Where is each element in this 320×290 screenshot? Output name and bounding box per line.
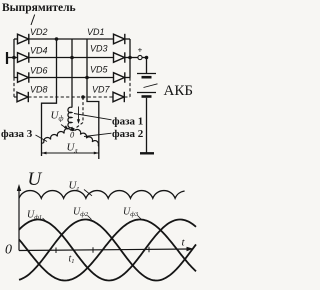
svg-text:Uф3: Uф3 bbox=[123, 207, 139, 219]
minus terminal wire bbox=[7, 57, 14, 59]
coil phase2 vertical bbox=[68, 107, 73, 129]
arrow into node0 bbox=[61, 125, 69, 130]
minus terminal bar bbox=[6, 52, 8, 64]
wire row1 middle bbox=[29, 38, 114, 40]
wire row1 right bbox=[125, 38, 130, 40]
sinusoid Uф3 bbox=[19, 220, 196, 281]
leader from title to rectifier bbox=[31, 15, 35, 26]
dashed neutral wire bbox=[75, 97, 84, 129]
battery cell1 short plate bbox=[142, 76, 152, 79]
svg-text:фаза 3: фаза 3 bbox=[1, 128, 33, 140]
node right bus bbox=[128, 56, 132, 60]
battery break mark bbox=[144, 84, 158, 88]
phase line 3 bbox=[87, 39, 99, 159]
node battery junction bbox=[145, 56, 149, 60]
left bus wire bbox=[13, 39, 15, 78]
node row4-neutral bbox=[81, 95, 85, 99]
svg-text:Uф: Uф bbox=[51, 110, 64, 123]
diode VD8 bbox=[17, 92, 28, 102]
svg-text:U: U bbox=[28, 169, 43, 190]
diode VD4 bbox=[18, 52, 29, 62]
node left bus bbox=[12, 56, 16, 60]
battery cell2 long plate bbox=[137, 92, 156, 94]
wire row4 dashed right bbox=[124, 96, 130, 98]
left bus dashed wire bbox=[13, 78, 15, 98]
node row1-phase1 bbox=[55, 37, 59, 41]
node row3-phase3 bbox=[85, 76, 89, 80]
leader фаза 2 bbox=[84, 133, 112, 136]
svg-text:Выпрямитель: Выпрямитель bbox=[2, 2, 76, 14]
battery cell1 long plate bbox=[137, 73, 156, 75]
battery cell2 short plate bbox=[142, 95, 152, 98]
wire row4 dashed left bbox=[14, 96, 17, 98]
y axis bbox=[18, 188, 20, 251]
t axis bbox=[19, 249, 190, 251]
wire row4 dashed middle bbox=[28, 96, 113, 98]
node 0 star point bbox=[71, 128, 74, 131]
svg-text:t: t bbox=[182, 237, 186, 249]
diode VD3 bbox=[114, 52, 125, 62]
phase line 1 bbox=[42, 39, 57, 156]
svg-text:Uф2: Uф2 bbox=[73, 207, 89, 219]
svg-text:VD6: VD6 bbox=[30, 66, 48, 76]
diode VD5 bbox=[114, 72, 125, 82]
tick 1 bbox=[55, 248, 57, 254]
battery bottom terminal bar bbox=[140, 152, 154, 154]
coil phase2right slanted bbox=[75, 129, 99, 145]
battery top wire bbox=[146, 58, 148, 74]
arrow Uф direction bbox=[77, 107, 80, 125]
svg-text:VD5: VD5 bbox=[90, 65, 109, 75]
svg-text:VD1: VD1 bbox=[87, 27, 105, 37]
sinusoid Uф1 bbox=[19, 220, 196, 281]
right bus dashed wire bbox=[129, 78, 131, 98]
battery АКБ bbox=[137, 58, 158, 154]
t axis arrow bbox=[187, 247, 194, 251]
tick 2 bbox=[92, 247, 94, 253]
diode VD1 bbox=[114, 34, 125, 44]
svg-text:Uф1: Uф1 bbox=[27, 210, 42, 222]
svg-text:0: 0 bbox=[70, 130, 75, 140]
svg-text:фаза 2: фаза 2 bbox=[112, 128, 144, 140]
leader фаза 1 bbox=[74, 114, 112, 120]
phase line 2 bbox=[71, 39, 73, 108]
rectified ripple curve bbox=[19, 191, 185, 199]
wire row3 left bbox=[14, 77, 18, 79]
svg-text:VD7: VD7 bbox=[92, 85, 111, 95]
wire left coil stub bbox=[42, 143, 45, 144]
diode VD6 bbox=[18, 72, 29, 82]
chart axes bbox=[17, 184, 194, 253]
svg-text:Uл: Uл bbox=[67, 142, 78, 155]
svg-text:АКБ: АКБ bbox=[164, 83, 193, 99]
diode VD2 bbox=[18, 34, 29, 44]
right bus wire bbox=[129, 39, 131, 78]
leader Uф3 bbox=[138, 216, 142, 220]
diode VD7 bbox=[113, 92, 124, 102]
leader Uф1 bbox=[43, 218, 48, 222]
node row2-phase2 bbox=[70, 56, 74, 60]
wire row2 right bbox=[125, 57, 130, 59]
wire right coil stub bbox=[97, 145, 100, 148]
battery bottom wire bbox=[146, 98, 148, 153]
leader фаза 3 bbox=[36, 135, 48, 142]
wire row2 left bbox=[14, 57, 18, 59]
svg-text:VD2: VD2 bbox=[30, 27, 48, 37]
wire row2 middle bbox=[29, 57, 114, 59]
svg-text:VD8: VD8 bbox=[30, 85, 48, 95]
wire row3 right bbox=[125, 77, 130, 79]
wire row1 left bbox=[14, 38, 18, 40]
sinusoid Uф2 bbox=[19, 220, 196, 281]
dimension Uл line bbox=[42, 152, 99, 155]
leader Uф2 bbox=[88, 216, 92, 220]
svg-text:VD3: VD3 bbox=[90, 44, 108, 54]
tick 3 bbox=[148, 247, 150, 253]
svg-text:VD4: VD4 bbox=[30, 46, 48, 56]
wire row3 middle bbox=[29, 77, 114, 79]
leader Uг bbox=[84, 190, 92, 196]
wire circle to battery junction bbox=[142, 57, 146, 59]
svg-text:0: 0 bbox=[5, 243, 12, 258]
coil phase3 left slanted bbox=[44, 129, 71, 143]
plus terminal circle bbox=[138, 55, 142, 59]
svg-text:Uг: Uг bbox=[69, 180, 80, 193]
svg-text:t1: t1 bbox=[69, 254, 75, 266]
y axis arrow bbox=[17, 184, 21, 191]
svg-text:фаза 1: фаза 1 bbox=[112, 116, 143, 128]
svg-text:+: + bbox=[138, 45, 143, 55]
plus output wire bbox=[130, 57, 138, 59]
